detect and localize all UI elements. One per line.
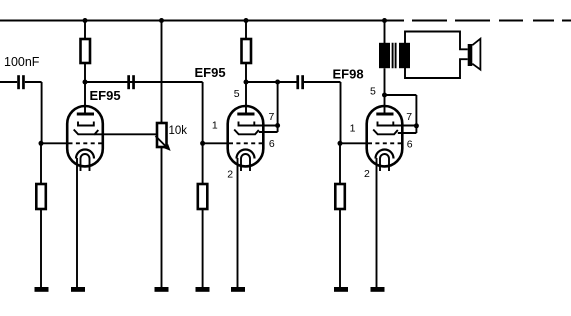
svg-text:6: 6 [407,139,413,151]
svg-text:10k: 10k [169,125,188,137]
svg-text:1: 1 [350,122,356,134]
svg-text:100nF: 100nF [4,55,40,69]
svg-text:6: 6 [269,138,275,150]
svg-text:7: 7 [406,111,412,123]
svg-text:1: 1 [212,119,218,131]
svg-text:EF98: EF98 [333,67,364,82]
svg-text:7: 7 [269,111,275,123]
svg-text:5: 5 [234,88,240,100]
svg-text:2: 2 [364,168,370,180]
svg-text:2: 2 [227,169,233,181]
svg-text:5: 5 [370,86,376,98]
svg-text:EF95: EF95 [90,88,121,103]
svg-text:EF95: EF95 [195,65,226,80]
